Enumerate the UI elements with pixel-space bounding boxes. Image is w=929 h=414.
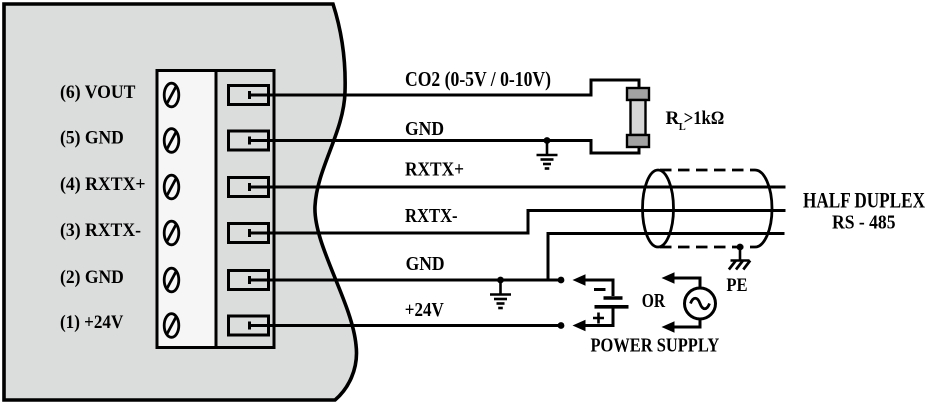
battery plus sign bbox=[593, 313, 604, 324]
svg-text:(2) GND: (2) GND bbox=[60, 267, 124, 288]
svg-text:OR: OR bbox=[642, 290, 666, 312]
svg-text:(6) VOUT: (6) VOUT bbox=[60, 82, 136, 103]
wire shield to cable bbox=[548, 234, 785, 281]
ground symbol 2 bbox=[490, 277, 511, 308]
terminal 5 bbox=[229, 131, 269, 150]
terminal block terminal column bbox=[216, 71, 274, 348]
node dot +24V end bbox=[558, 322, 565, 329]
device body bbox=[4, 4, 356, 400]
AC sine wave bbox=[691, 298, 710, 309]
battery minus plate bbox=[604, 296, 623, 300]
wire RXTX+ bbox=[250, 183, 786, 191]
terminal 1 bbox=[229, 316, 269, 335]
screw (2) bbox=[164, 268, 179, 292]
svg-text:POWER SUPPLY: POWER SUPPLY bbox=[591, 335, 720, 357]
AC top arrow bbox=[672, 278, 700, 288]
svg-text:(3) RXTX-: (3) RXTX- bbox=[60, 220, 141, 241]
AC bottom arrow bbox=[672, 319, 700, 327]
svg-text:(5) GND: (5) GND bbox=[60, 128, 124, 149]
terminal 6 bbox=[229, 86, 269, 105]
node dot GND2 end bbox=[558, 277, 565, 284]
resistor body bbox=[631, 100, 646, 135]
svg-text:GND: GND bbox=[405, 118, 444, 140]
screw (3) bbox=[164, 221, 179, 245]
wire GND2 bbox=[250, 276, 562, 284]
AC source circle bbox=[685, 288, 716, 319]
svg-text:(4) RXTX+: (4) RXTX+ bbox=[60, 174, 146, 195]
terminal 4 bbox=[229, 178, 269, 197]
resistor bottom cap bbox=[627, 135, 649, 147]
svg-text:RXTX+: RXTX+ bbox=[405, 159, 464, 181]
svg-text:+24V: +24V bbox=[405, 299, 444, 321]
cable bottom dashed line bbox=[660, 246, 755, 249]
svg-text:PE: PE bbox=[726, 275, 747, 296]
PE junction dot bbox=[737, 244, 744, 251]
screw (5) bbox=[164, 129, 179, 153]
resistor RL body leads already drawn; top cap bbox=[627, 88, 649, 100]
wire RXTX- bbox=[250, 211, 786, 238]
battery minus sign bbox=[594, 288, 606, 291]
wire VOUT / CO2 bbox=[250, 80, 640, 99]
svg-text:>1kΩ: >1kΩ bbox=[684, 108, 725, 129]
ground symbol 1 bbox=[537, 137, 558, 168]
svg-text:RS - 485: RS - 485 bbox=[832, 212, 896, 234]
terminal 3 bbox=[229, 224, 269, 243]
svg-text:(1) +24V: (1) +24V bbox=[60, 312, 124, 333]
svg-text:CO2 (0-5V / 0-10V): CO2 (0-5V / 0-10V) bbox=[405, 67, 551, 91]
PE ground symbol bbox=[729, 247, 750, 270]
svg-text:R: R bbox=[666, 108, 680, 129]
battery plus arrow bbox=[584, 309, 613, 326]
screw (1) bbox=[164, 314, 179, 338]
terminal block screw column bbox=[157, 71, 216, 348]
svg-text:RXTX-: RXTX- bbox=[405, 205, 458, 227]
cable shield ellipse bbox=[643, 170, 674, 247]
svg-text:GND: GND bbox=[406, 253, 445, 275]
wire GND1 bbox=[250, 137, 640, 154]
terminal 2 bbox=[229, 271, 269, 290]
screw (6) bbox=[164, 83, 179, 107]
cable top dashed line bbox=[660, 169, 755, 172]
cable right arc bbox=[755, 170, 772, 247]
wire +24V bbox=[250, 322, 562, 330]
screw (4) bbox=[164, 175, 179, 199]
svg-text:HALF DUPLEX: HALF DUPLEX bbox=[803, 188, 925, 213]
battery plus plate bbox=[595, 305, 629, 309]
battery minus arrow bbox=[584, 280, 613, 296]
